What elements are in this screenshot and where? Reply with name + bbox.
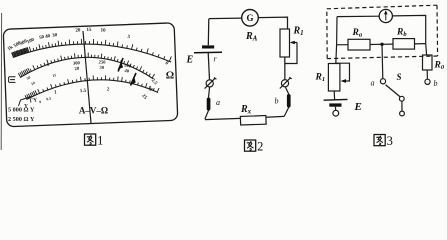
svg-text:b: b bbox=[275, 97, 279, 106]
battery E plate long bbox=[194, 51, 222, 54]
svg-text:1: 1 bbox=[97, 134, 103, 148]
svg-text:b: b bbox=[434, 79, 438, 88]
caption 图1 bbox=[85, 134, 96, 145]
resistor Rx bbox=[240, 116, 266, 125]
terminal b (fig3) bbox=[425, 79, 430, 84]
switch S bbox=[386, 85, 400, 97]
dashed enclosure bbox=[327, 5, 438, 58]
wire junction to terminal a bbox=[381, 44, 384, 78]
svg-text:10: 10 bbox=[100, 28, 106, 33]
wire R0 to terminal b bbox=[426, 70, 428, 79]
battery E long plate (fig3) bbox=[324, 98, 348, 101]
resistor row wire bbox=[337, 44, 426, 45]
lower scale arc bbox=[27, 80, 159, 100]
svg-text:5 000 Ω Y: 5 000 Ω Y bbox=[8, 107, 35, 114]
lower scale ticks bbox=[25, 75, 159, 99]
bottom rail left bbox=[205, 118, 241, 119]
svg-text:a: a bbox=[371, 79, 375, 88]
svg-text:E: E bbox=[186, 55, 194, 66]
resistor Rb bbox=[393, 39, 415, 50]
svg-text:E: E bbox=[354, 101, 362, 113]
resistor R0 bbox=[425, 44, 428, 55]
terminal b (fig2) bbox=[281, 80, 288, 87]
caption 图2 bbox=[245, 140, 256, 151]
terminal a (fig2) bbox=[206, 80, 213, 87]
left scale-end symbol bbox=[9, 77, 16, 83]
wire top right (fig2) bbox=[258, 17, 287, 29]
scan edge line bbox=[0, 13, 2, 150]
rheostat R1 (fig2) bbox=[280, 29, 290, 57]
svg-text:G: G bbox=[246, 13, 253, 23]
svg-text:15: 15 bbox=[86, 28, 92, 33]
wire battery to terminal bbox=[334, 107, 336, 111]
caption 图3 bbox=[374, 135, 385, 146]
battery E short plate (fig3) bbox=[329, 103, 341, 106]
battery E plate short bbox=[202, 45, 214, 48]
ammeter (fig3) bbox=[379, 9, 392, 22]
svg-text:ΓY: ΓY bbox=[29, 97, 37, 104]
svg-text:2: 2 bbox=[257, 140, 263, 154]
ohm scale dense cluster bbox=[12, 47, 29, 57]
terminal a (fig3) bbox=[380, 79, 385, 84]
wiper of R1 (fig2) bbox=[285, 43, 297, 64]
marker arrow on middle scale bbox=[118, 58, 136, 86]
rheostat R1 (fig3) bbox=[328, 64, 340, 92]
battery terminal bbox=[333, 110, 339, 116]
top wire (fig3) bbox=[337, 15, 426, 43]
bottom rail right bbox=[266, 115, 284, 118]
svg-text:S: S bbox=[397, 72, 402, 82]
middle scale arc bbox=[20, 57, 154, 79]
ohm scale arc bbox=[13, 44, 171, 62]
ohm scale ticks bbox=[29, 39, 171, 61]
svg-text:A–V–Ω: A–V–Ω bbox=[79, 106, 108, 116]
plug b bbox=[287, 94, 291, 108]
wire R1 to battery bbox=[333, 91, 335, 100]
middle scale ticks bbox=[18, 53, 154, 78]
svg-text:2 500 Ω Y: 2 500 Ω Y bbox=[8, 116, 35, 123]
resistor Ra bbox=[348, 39, 370, 50]
svg-text:3: 3 bbox=[387, 134, 393, 148]
wiper of R1 (fig3) bbox=[336, 63, 350, 81]
svg-text:Ω: Ω bbox=[166, 71, 174, 82]
svg-text:20: 20 bbox=[75, 28, 81, 33]
svg-text:1.5: 1.5 bbox=[80, 89, 87, 94]
middle scale numbers bbox=[26, 59, 132, 86]
wire top left (fig2) bbox=[209, 17, 242, 20]
lower scale numbers bbox=[39, 78, 158, 104]
left wire down (fig3) bbox=[336, 17, 337, 64]
meter needle bbox=[83, 31, 91, 123]
junction node bbox=[380, 43, 383, 46]
wire b up to rheostat bbox=[284, 57, 286, 80]
hook mark bbox=[19, 97, 32, 107]
svg-text:a: a bbox=[216, 98, 220, 107]
wire left down to battery bbox=[207, 19, 210, 46]
plug a bbox=[207, 98, 211, 111]
galvanometer G bbox=[242, 9, 259, 26]
ohm scale numbers bbox=[7, 28, 169, 67]
marker arrow on lower scale bbox=[131, 73, 137, 86]
multimeter panel 图1 bbox=[3, 23, 178, 127]
wire battery to terminal a bbox=[208, 53, 209, 80]
